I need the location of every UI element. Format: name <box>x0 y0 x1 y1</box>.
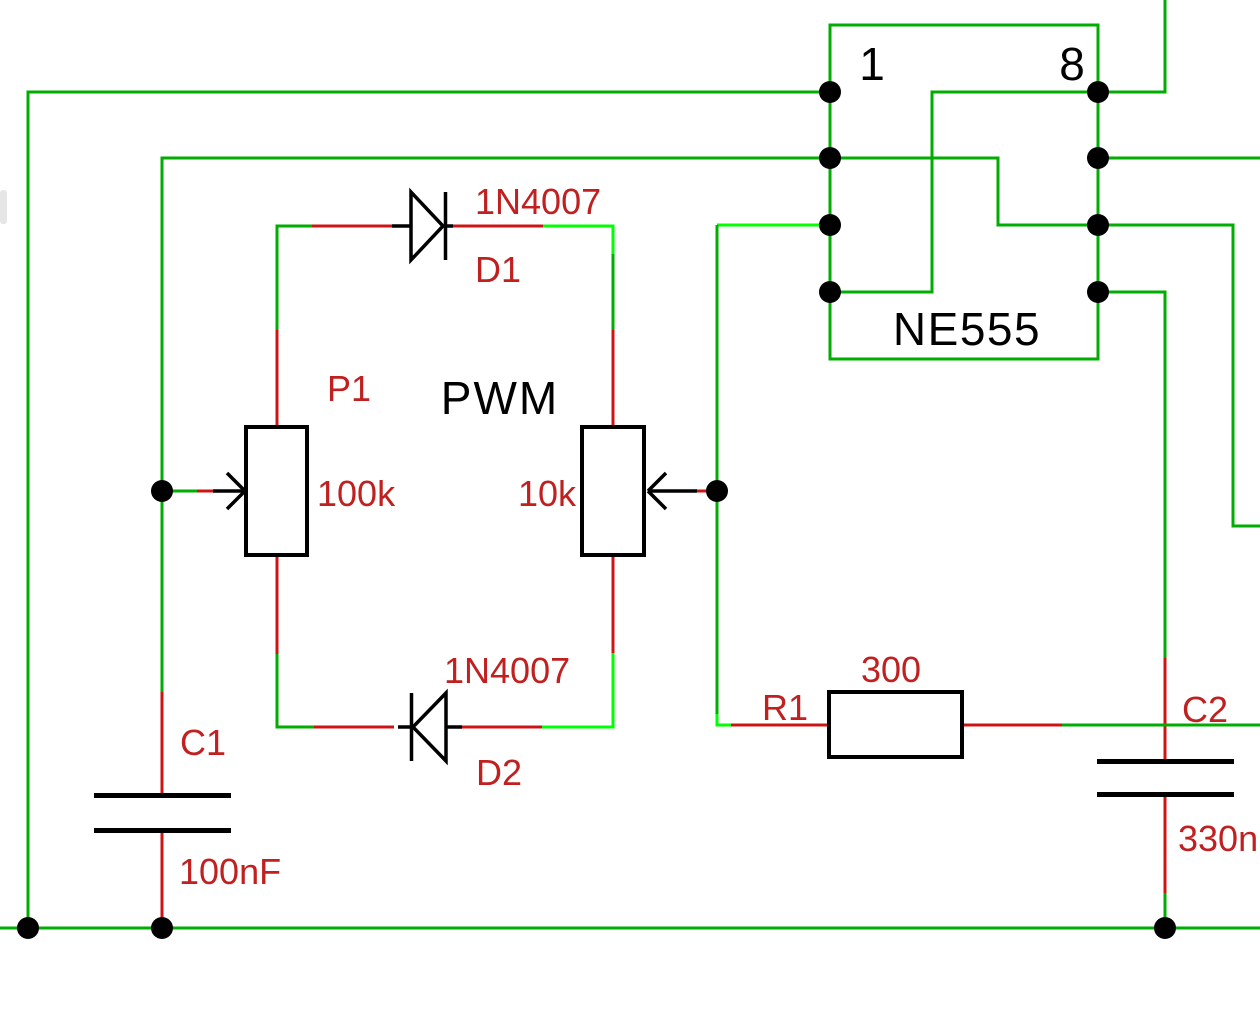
potentiometer P1 wiper arrow <box>213 489 243 493</box>
node ground rail C2 <box>1154 917 1176 939</box>
wire D1 cathode red lead <box>452 225 543 228</box>
svg-text:330nF: 330nF <box>1178 818 1260 859</box>
node ground rail left <box>17 917 39 939</box>
wire C2 bottom red lead <box>1164 797 1167 893</box>
node 10k wiper junction <box>706 480 728 502</box>
wire P1 wiper green segment <box>162 490 197 493</box>
svg-text:D1: D1 <box>475 249 521 290</box>
wire C2 top red lead <box>1164 658 1167 759</box>
svg-text:8: 8 <box>1059 38 1085 90</box>
wire pin4 to pin8 internal <box>830 92 1098 292</box>
node pin2 junction <box>819 147 841 169</box>
node ground rail C1 <box>151 917 173 939</box>
diode D1 <box>392 224 411 228</box>
svg-text:NE555: NE555 <box>893 303 1041 355</box>
node pin5 junction <box>1087 281 1109 303</box>
wire D2 left corner green <box>277 654 314 727</box>
node pin4 junction <box>819 281 841 303</box>
node pin7 junction <box>1087 147 1109 169</box>
wire P1 wiper red segment <box>197 490 213 493</box>
potentiometer P2 10k body <box>582 427 644 555</box>
wire D1 right green vertical <box>612 254 615 330</box>
wire R1 to right edge green <box>1062 724 1260 727</box>
wire C2 to bottom rail green <box>1164 893 1167 928</box>
wire 10k wiper red segment <box>697 490 708 493</box>
wire pin3 vertical down to wiper junction and R1 row <box>716 225 719 714</box>
wire D2 cathode red lead <box>314 726 394 729</box>
resistor R1 body <box>829 692 962 757</box>
wire pin3 bright segment <box>717 224 830 227</box>
wire bottom ground rail <box>0 927 1260 930</box>
wire D2 anode red lead <box>462 726 542 729</box>
svg-text:300: 300 <box>861 649 921 690</box>
svg-text:D2: D2 <box>476 752 522 793</box>
wire D2 right bright corner <box>542 653 613 727</box>
wire R1 corner bright segment <box>717 714 731 725</box>
svg-text:10k: 10k <box>518 473 577 514</box>
node pin8 junction <box>1087 81 1109 103</box>
op-amp U1 NE555 box <box>830 25 1098 359</box>
wire C1 top red lead <box>161 692 164 793</box>
potentiometer P2 wiper arrow <box>650 489 697 493</box>
wire pin5 to C2 green <box>1098 292 1165 658</box>
wire 10k bottom red stub <box>612 555 615 653</box>
wire D1 left corner green <box>277 226 312 330</box>
wire D1 anode red lead <box>312 225 394 228</box>
svg-text:100k: 100k <box>317 473 396 514</box>
svg-text:1: 1 <box>859 38 885 90</box>
capacitor C1 plates <box>94 793 231 798</box>
wire pin6 to right edge <box>1098 225 1260 526</box>
wire pin8 to top edge <box>1098 0 1165 92</box>
node P1 wiper junction <box>151 480 173 502</box>
wire pin2 net: rail B to pin2 and over to pin6 <box>162 158 1098 491</box>
diode D2 <box>398 725 412 729</box>
node pin6 junction <box>1087 214 1109 236</box>
wire R1 right red lead <box>962 724 1062 727</box>
wire R1 left red lead <box>731 724 829 727</box>
svg-text:100nF: 100nF <box>179 851 281 892</box>
node pin1 junction <box>819 81 841 103</box>
wire 10k top red stub <box>612 330 615 427</box>
wire rail B lower green (junction to C1) <box>161 491 164 692</box>
wire C1 bottom red lead <box>161 833 164 922</box>
wire P1 bottom red stub <box>276 555 279 654</box>
svg-text:C1: C1 <box>180 722 226 763</box>
wire P1 top red stub <box>276 330 279 427</box>
potentiometer P1 body <box>246 427 307 555</box>
wire 10k wiper green segment <box>708 490 717 493</box>
svg-text:C2: C2 <box>1182 689 1228 730</box>
wire GND left rail (pin1 to bottom rail) <box>28 92 830 928</box>
wire pin7 to right edge <box>1098 157 1260 160</box>
svg-text:R1: R1 <box>762 687 808 728</box>
wire D1 right bright corner <box>543 226 613 254</box>
node pin3 junction <box>819 214 841 236</box>
edge artifact smudge <box>0 190 7 224</box>
svg-text:1N4007: 1N4007 <box>444 650 570 691</box>
svg-text:PWM: PWM <box>441 372 559 424</box>
svg-text:1N4007: 1N4007 <box>475 181 601 222</box>
svg-text:P1: P1 <box>327 368 371 409</box>
capacitor C2 plates <box>1097 759 1234 764</box>
